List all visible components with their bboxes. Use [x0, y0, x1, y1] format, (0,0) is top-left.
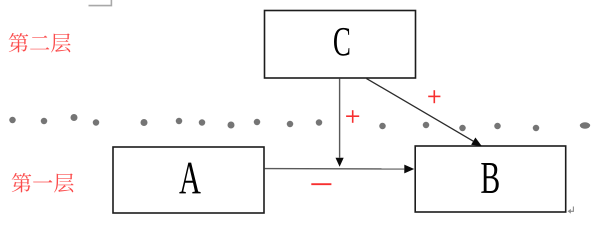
- box C: [265, 11, 416, 79]
- box A: [113, 147, 264, 213]
- letter C: [334, 28, 349, 56]
- label 第二层: [9, 33, 71, 53]
- arrow from A to B: [265, 165, 415, 174]
- arrow from C down to A-B link: [336, 79, 344, 167]
- plus sign on vertical arrow: [346, 110, 359, 123]
- minus sign on A-B arrow: [311, 183, 331, 185]
- box B: [415, 146, 566, 212]
- letter B: [481, 163, 498, 193]
- label 第一层: [12, 173, 74, 193]
- paragraph return mark: [568, 207, 574, 214]
- dotted layer divider line: [9, 114, 590, 131]
- letter A: [179, 163, 200, 194]
- canvas corner mark (partial rectangle at top): [89, 0, 112, 6]
- plus sign on diagonal arrow: [428, 90, 440, 103]
- arrow from C to B: [366, 78, 482, 146]
